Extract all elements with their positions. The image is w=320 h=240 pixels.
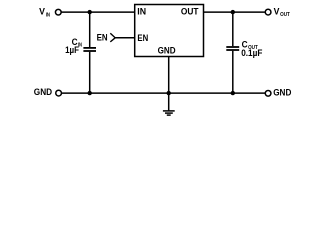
svg-text:IN: IN [137, 7, 146, 17]
terminal VOUT [265, 9, 271, 15]
junction node VIN/CIN [88, 10, 92, 14]
junction node COUT/GND rail [231, 91, 235, 95]
label VOUT [274, 6, 291, 18]
svg-text:GND: GND [34, 87, 53, 97]
terminal GND right [265, 90, 271, 96]
junction node GND pin/GND rail [167, 91, 171, 95]
label VIN [39, 7, 50, 19]
terminal VIN [55, 9, 61, 15]
svg-text:OUT: OUT [280, 12, 290, 18]
svg-text:1µF: 1µF [65, 45, 79, 55]
svg-text:GND: GND [158, 46, 176, 56]
ground symbol [163, 111, 175, 115]
terminal GND left [56, 90, 62, 96]
svg-text:GND: GND [273, 88, 291, 98]
junction node CIN/GND rail [88, 91, 92, 95]
svg-text:EN: EN [97, 33, 108, 43]
wire GND rail [62, 92, 266, 94]
EN input wedge symbol [110, 33, 115, 42]
regulator U1 box [135, 5, 204, 57]
capacitor C_OUT [226, 12, 239, 93]
wire EN to EN pin [115, 37, 135, 39]
svg-text:V: V [39, 7, 46, 17]
label C_OUT [242, 40, 259, 51]
wire VIN to IN pin [61, 11, 135, 13]
capacitor C_IN [83, 12, 96, 93]
wire GND pin to ground [168, 57, 170, 111]
junction node OUT/COUT [231, 10, 235, 14]
svg-text:EN: EN [137, 33, 148, 43]
label C_IN [72, 37, 82, 48]
svg-text:IN: IN [46, 13, 50, 19]
svg-text:OUT: OUT [181, 7, 199, 17]
svg-text:0.1µF: 0.1µF [241, 48, 262, 58]
wire OUT pin to VOUT [204, 11, 266, 13]
